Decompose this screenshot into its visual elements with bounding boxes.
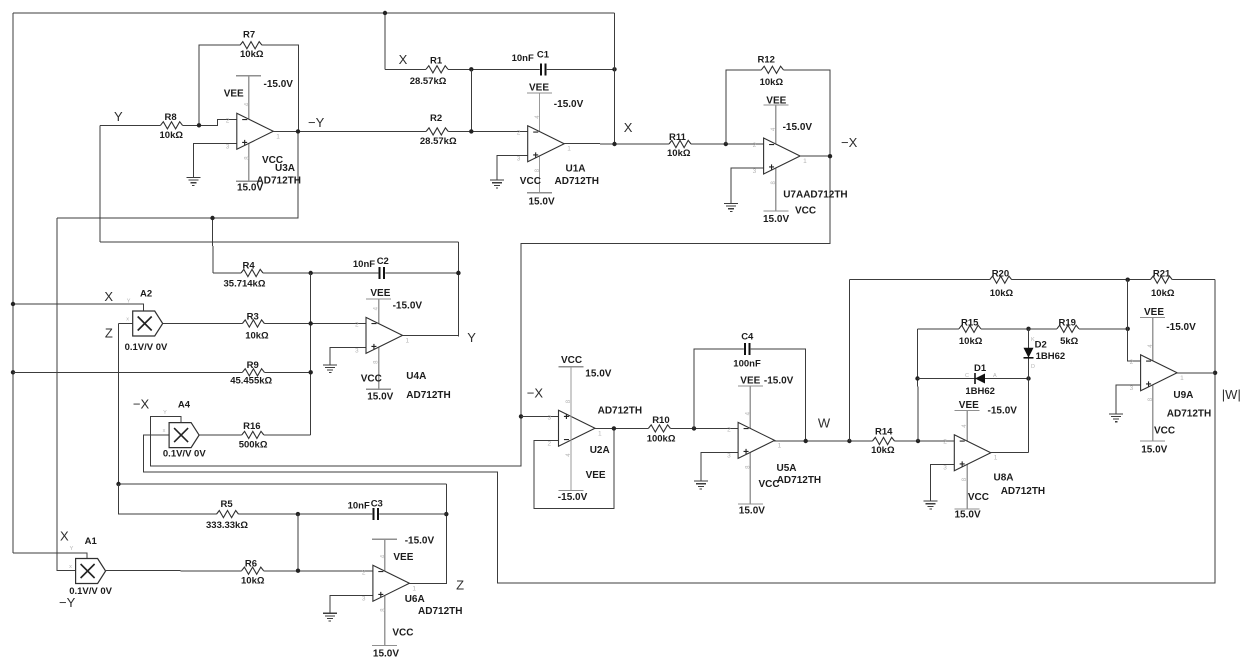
- wire Y output: [403, 334, 459, 336]
- junction -Y output: [296, 129, 300, 133]
- wire X output row: [564, 143, 763, 145]
- svg-text:+: +: [533, 150, 539, 161]
- svg-text:2: 2: [943, 439, 947, 446]
- svg-text:10kΩ: 10kΩ: [240, 49, 264, 60]
- resistor R21: [1150, 275, 1172, 284]
- svg-text:-15.0V: -15.0V: [1166, 322, 1196, 333]
- svg-text:Z: Z: [456, 578, 464, 593]
- wire summing riser U6A: [297, 514, 299, 571]
- ground U9A: [1109, 414, 1123, 422]
- svg-text:10nF: 10nF: [512, 53, 534, 64]
- power VCC U1A: [527, 192, 552, 194]
- svg-text:D1: D1: [974, 363, 987, 374]
- svg-text:AD712TH: AD712TH: [418, 606, 462, 617]
- svg-text:2: 2: [1130, 359, 1134, 366]
- diode D1: [918, 378, 1029, 380]
- svg-text:1: 1: [778, 442, 782, 449]
- svg-text:−X: −X: [841, 135, 858, 150]
- svg-text:VEE: VEE: [370, 288, 390, 299]
- svg-text:AD712TH: AD712TH: [777, 475, 821, 486]
- svg-text:1: 1: [412, 585, 416, 592]
- svg-text:2: 2: [517, 130, 521, 137]
- svg-text:+: +: [564, 412, 570, 423]
- svg-text:C: C: [965, 373, 969, 379]
- svg-text:100nF: 100nF: [733, 359, 761, 370]
- svg-text:-15.0V: -15.0V: [554, 99, 584, 110]
- svg-text:10kΩ: 10kΩ: [667, 148, 691, 159]
- ground U4A: [323, 365, 337, 373]
- svg-text:28.57kΩ: 28.57kΩ: [420, 136, 457, 147]
- svg-text:U2A: U2A: [590, 445, 610, 456]
- ground U6A: [323, 613, 337, 621]
- svg-text:U4A: U4A: [406, 371, 426, 382]
- svg-text:U3A: U3A: [275, 163, 295, 174]
- svg-text:−: −: [371, 319, 377, 330]
- svg-text:5kΩ: 5kΩ: [1060, 336, 1079, 347]
- ground U5A: [694, 481, 708, 489]
- svg-text:0.1V/V 0V: 0.1V/V 0V: [163, 449, 206, 460]
- svg-text:|W|: |W|: [1222, 387, 1241, 402]
- op-amp U8A: [943, 435, 998, 472]
- svg-text:VCC: VCC: [520, 176, 541, 187]
- wire U4A + input: [330, 347, 366, 364]
- junction X/R9: [11, 370, 15, 374]
- wire X to A2 y input: [13, 304, 144, 311]
- wire |W| net from U9A output: [144, 280, 1216, 583]
- svg-text:Z: Z: [105, 326, 113, 341]
- svg-text:U7AAD712TH: U7AAD712TH: [783, 190, 847, 201]
- svg-text:10nF: 10nF: [348, 500, 370, 511]
- svg-text:−: −: [533, 128, 539, 139]
- resistor R11: [669, 139, 691, 148]
- svg-text:100kΩ: 100kΩ: [647, 434, 676, 445]
- svg-text:U6A: U6A: [405, 594, 425, 605]
- svg-text:U9A: U9A: [1173, 390, 1193, 401]
- wire U9A output: [1177, 372, 1215, 374]
- svg-text:VCC: VCC: [392, 628, 413, 639]
- svg-text:1BH62: 1BH62: [965, 386, 995, 397]
- svg-text:VCC: VCC: [361, 374, 382, 385]
- svg-text:+: +: [242, 138, 248, 149]
- wire U9A + input: [1116, 385, 1141, 414]
- ground U1A: [490, 180, 504, 188]
- resistor R9: [13, 371, 311, 373]
- svg-text:1: 1: [1180, 375, 1184, 382]
- wire W riser to R20: [848, 280, 850, 441]
- junction R9: [309, 370, 313, 374]
- svg-text:K: K: [1031, 337, 1035, 343]
- junction summing U4A: [309, 271, 313, 275]
- svg-text:1: 1: [276, 133, 280, 140]
- svg-text:D2: D2: [1035, 339, 1047, 350]
- svg-text:Y: Y: [163, 410, 167, 416]
- svg-text:2: 2: [362, 569, 366, 576]
- power VEE U1A: [539, 93, 541, 193]
- svg-text:D: D: [1031, 364, 1035, 370]
- junction R15/R19/D2: [1026, 327, 1030, 331]
- junction R14/U8A: [916, 439, 920, 443]
- svg-text:VEE: VEE: [1144, 307, 1164, 318]
- svg-text:W: W: [818, 416, 831, 431]
- svg-text:VCC: VCC: [795, 206, 816, 217]
- svg-text:1: 1: [803, 158, 807, 165]
- svg-text:28.57kΩ: 28.57kΩ: [410, 76, 447, 87]
- svg-text:15.0V: 15.0V: [739, 506, 765, 517]
- svg-text:2: 2: [727, 426, 731, 433]
- junction Y/C2: [456, 271, 460, 275]
- svg-text:-15.0V: -15.0V: [264, 79, 294, 90]
- wire -Y down to A1 x input: [57, 218, 76, 571]
- svg-text:15.0V: 15.0V: [1141, 444, 1167, 455]
- svg-text:R5: R5: [221, 499, 234, 510]
- wire U3A + input: [193, 143, 237, 177]
- op-amp U1A: [517, 126, 572, 163]
- op-amp U3A: [226, 113, 280, 150]
- svg-text:-15.0V: -15.0V: [988, 406, 1018, 417]
- svg-text:10kΩ: 10kΩ: [871, 445, 895, 456]
- resistor R1: [385, 68, 615, 70]
- svg-text:10kΩ: 10kΩ: [1151, 288, 1175, 299]
- capacitor C2: [311, 272, 459, 274]
- power VCC U8A: [955, 508, 980, 510]
- svg-text:−: −: [959, 437, 965, 448]
- resistor R7: [199, 45, 299, 131]
- svg-text:3: 3: [226, 143, 230, 150]
- svg-text:AD712TH: AD712TH: [598, 405, 642, 416]
- svg-text:15.0V: 15.0V: [373, 648, 399, 659]
- wire U8A feedback bus left: [917, 329, 920, 441]
- wire Z net rail: [118, 483, 447, 485]
- svg-text:AD712TH: AD712TH: [406, 390, 450, 401]
- svg-text:-15.0V: -15.0V: [393, 300, 423, 311]
- resistor R2: [426, 127, 448, 136]
- multiplier A1: [69, 546, 106, 584]
- svg-text:−X: −X: [133, 397, 150, 412]
- ground U7A: [724, 204, 738, 212]
- svg-text:−: −: [769, 140, 775, 151]
- svg-text:R15: R15: [961, 317, 979, 328]
- resistor R10: [648, 424, 670, 433]
- svg-text:2: 2: [753, 142, 757, 149]
- junction C1 right: [612, 67, 616, 71]
- wire U2A feedback loop: [534, 428, 614, 508]
- svg-text:X: X: [60, 529, 69, 544]
- junction D1 right: [1026, 376, 1030, 380]
- svg-text:Y: Y: [467, 330, 476, 345]
- svg-text:U5A: U5A: [777, 463, 797, 474]
- svg-text:10kΩ: 10kΩ: [245, 331, 269, 342]
- svg-text:VEE: VEE: [766, 96, 786, 107]
- svg-text:3: 3: [362, 595, 366, 602]
- wire -Y to R4: [212, 218, 215, 273]
- ground U3A: [186, 178, 200, 186]
- svg-text:Y: Y: [114, 109, 123, 124]
- svg-text:C3: C3: [371, 499, 383, 510]
- svg-text:x: x: [163, 428, 166, 434]
- resistor R8: [100, 124, 199, 126]
- power VCC U7A: [763, 210, 788, 212]
- svg-text:+: +: [743, 447, 749, 458]
- svg-text:−Y: −Y: [59, 595, 76, 610]
- op-amp U5A: [727, 422, 782, 459]
- svg-text:R20: R20: [992, 268, 1009, 279]
- svg-text:Y: Y: [127, 299, 131, 305]
- svg-text:−: −: [564, 435, 570, 446]
- resistor R19: [1029, 328, 1128, 330]
- svg-text:+: +: [769, 163, 775, 174]
- svg-text:+: +: [1146, 379, 1152, 390]
- wire U8A output: [991, 452, 1029, 454]
- svg-text:R16: R16: [243, 421, 260, 432]
- multiplier A2: [126, 299, 163, 337]
- junction R7/R8: [197, 123, 201, 127]
- svg-text:Y: Y: [70, 546, 74, 552]
- power VCC U4A: [366, 388, 391, 390]
- resistor R6: [106, 570, 373, 572]
- junction U2A feedback: [612, 426, 616, 430]
- wire -Y bus from U3A: [57, 131, 298, 218]
- svg-text:3: 3: [548, 414, 552, 421]
- svg-text:10kΩ: 10kΩ: [760, 77, 784, 88]
- svg-text:+: +: [371, 342, 377, 353]
- svg-text:AD712TH: AD712TH: [257, 175, 301, 186]
- junction R11/R12: [724, 142, 728, 146]
- resistor R14: [873, 436, 895, 445]
- junction U7A output: [828, 154, 832, 158]
- resistor R5: [118, 484, 120, 514]
- resistor R12: [726, 70, 830, 244]
- capacitor C1: [540, 63, 547, 76]
- power VEE U6A: [384, 539, 386, 645]
- wire U5A + input: [701, 452, 738, 481]
- svg-text:+: +: [378, 590, 384, 601]
- wire U8A + input: [931, 464, 955, 501]
- wire Z net from A2 input down: [118, 324, 120, 515]
- svg-text:10kΩ: 10kΩ: [160, 130, 184, 141]
- ground U8A: [924, 501, 938, 509]
- power VCC U5A: [738, 503, 763, 505]
- svg-text:+: +: [959, 459, 965, 470]
- svg-text:15.0V: 15.0V: [529, 197, 555, 208]
- power VEE U2A: [559, 489, 584, 491]
- power VEE U8A: [966, 411, 968, 510]
- junction C4/W: [804, 439, 808, 443]
- svg-text:C2: C2: [377, 256, 389, 267]
- junction R1/C1: [469, 67, 473, 71]
- svg-text:AD712TH: AD712TH: [1167, 409, 1211, 420]
- capacitor C3: [372, 508, 379, 521]
- junction C2 right: [456, 271, 460, 275]
- svg-text:15.0V: 15.0V: [367, 391, 393, 402]
- svg-text:10kΩ: 10kΩ: [959, 336, 983, 347]
- junction X output: [612, 142, 616, 146]
- svg-text:VEE: VEE: [740, 376, 760, 387]
- svg-text:R21: R21: [1153, 268, 1171, 279]
- svg-text:0.1V/V 0V: 0.1V/V 0V: [69, 586, 112, 597]
- svg-text:VEE: VEE: [393, 552, 413, 563]
- power VEE U3A: [248, 76, 250, 182]
- wire X feedback vertical: [614, 13, 616, 144]
- svg-text:VEE: VEE: [529, 83, 549, 94]
- junction X top: [383, 11, 387, 15]
- power VCC U3A: [236, 180, 261, 182]
- wire Z output: [409, 582, 446, 584]
- wire X net top rail: [13, 12, 615, 14]
- resistor R4: [213, 272, 311, 274]
- svg-text:X: X: [104, 289, 113, 304]
- power VEE U5A: [749, 386, 751, 504]
- svg-text:R8: R8: [165, 112, 177, 123]
- svg-text:3: 3: [727, 452, 731, 459]
- junction D1 left: [915, 376, 919, 380]
- svg-text:2: 2: [226, 117, 230, 124]
- op-amp U9A: [1130, 355, 1185, 392]
- svg-text:AD712TH: AD712TH: [1001, 486, 1045, 497]
- svg-text:AD712TH: AD712TH: [555, 176, 599, 187]
- junction R6/U6A: [296, 569, 300, 573]
- svg-text:3: 3: [517, 156, 521, 163]
- wire Z to A2 x input: [119, 323, 133, 325]
- svg-text:3: 3: [1130, 385, 1134, 392]
- svg-text:VCC: VCC: [968, 492, 989, 503]
- junction R5/C3: [296, 512, 300, 516]
- wire W output row: [775, 439, 955, 442]
- junction R2/U1A: [469, 129, 473, 133]
- junction R19/R20: [1126, 327, 1130, 331]
- svg-text:500kΩ: 500kΩ: [239, 439, 268, 450]
- svg-text:1BH62: 1BH62: [1036, 351, 1066, 362]
- svg-text:VCC: VCC: [1154, 425, 1175, 436]
- svg-text:10nF: 10nF: [353, 259, 375, 270]
- svg-text:C4: C4: [741, 331, 754, 342]
- svg-text:R11: R11: [669, 132, 687, 143]
- svg-text:R4: R4: [243, 260, 256, 271]
- wire -X rail from U7A to U2A: [151, 156, 831, 466]
- svg-text:3: 3: [753, 168, 757, 175]
- svg-text:−Y: −Y: [308, 115, 325, 130]
- junction -X/U2A+: [519, 414, 523, 418]
- wire X feedback riser to R1: [384, 13, 386, 69]
- svg-text:10kΩ: 10kΩ: [241, 576, 265, 587]
- junction R10/C4: [692, 426, 696, 430]
- svg-text:-15.0V: -15.0V: [405, 535, 435, 546]
- resistor R16: [199, 434, 311, 436]
- svg-text:35.714kΩ: 35.714kΩ: [224, 279, 266, 290]
- wire U9A summing: [1128, 280, 1141, 361]
- svg-text:2: 2: [355, 321, 359, 328]
- svg-text:VCC: VCC: [561, 355, 582, 366]
- svg-text:−: −: [743, 424, 749, 435]
- svg-text:1: 1: [598, 430, 602, 437]
- svg-text:x: x: [69, 564, 72, 570]
- svg-text:X: X: [624, 120, 633, 135]
- power VCC U2A: [570, 367, 572, 491]
- svg-text:R14: R14: [875, 426, 893, 437]
- wire summing node riser U1A: [470, 69, 472, 131]
- svg-text:R2: R2: [430, 113, 442, 124]
- svg-text:15.0V: 15.0V: [585, 368, 611, 379]
- resistor R15: [918, 328, 1029, 330]
- resistor R20: [849, 279, 1215, 281]
- svg-text:X: X: [399, 52, 408, 67]
- svg-text:−: −: [378, 567, 384, 578]
- wire U6A + input: [330, 595, 373, 613]
- svg-text:0.1V/V 0V: 0.1V/V 0V: [125, 342, 168, 353]
- svg-text:A: A: [993, 373, 997, 379]
- op-amp U6A: [362, 565, 417, 602]
- svg-text:1: 1: [994, 455, 998, 462]
- svg-text:1: 1: [567, 146, 571, 153]
- junction Z/R5: [116, 482, 120, 486]
- svg-text:15.0V: 15.0V: [955, 509, 981, 520]
- svg-text:3: 3: [943, 465, 947, 472]
- svg-text:1: 1: [406, 337, 410, 344]
- svg-text:C1: C1: [537, 49, 550, 60]
- svg-text:VEE: VEE: [224, 89, 244, 100]
- wire U7A + input: [731, 168, 763, 204]
- wire summing bus U4A: [310, 273, 312, 435]
- op-amp U2A (follower): [548, 410, 603, 447]
- power VCC U6A: [372, 645, 397, 647]
- svg-text:U8A: U8A: [994, 473, 1014, 484]
- wire Y net riser to R8: [99, 125, 101, 242]
- svg-text:A4: A4: [178, 399, 191, 410]
- svg-text:-15.0V: -15.0V: [783, 122, 813, 133]
- wire U2A output row: [595, 427, 738, 429]
- power VCC U9A: [1140, 440, 1165, 442]
- svg-text:R7: R7: [243, 30, 255, 41]
- svg-text:R12: R12: [758, 55, 775, 66]
- svg-text:3: 3: [355, 347, 359, 354]
- junction R20/R21: [1126, 278, 1130, 282]
- svg-text:2: 2: [548, 440, 552, 447]
- power VEE U4A: [378, 299, 380, 389]
- svg-text:R1: R1: [430, 56, 443, 67]
- svg-text:−X: −X: [527, 386, 544, 401]
- wire D2 branch: [1028, 329, 1030, 453]
- resistor R3: [162, 323, 366, 325]
- junction W/R20 riser: [847, 439, 851, 443]
- svg-text:15.0V: 15.0V: [763, 214, 789, 225]
- svg-text:R10: R10: [652, 415, 669, 426]
- svg-text:−: −: [242, 115, 248, 126]
- junction Z/C3: [444, 512, 448, 516]
- power VEE U9A: [1152, 317, 1154, 441]
- svg-text:VEE: VEE: [959, 400, 979, 411]
- svg-text:R6: R6: [245, 559, 257, 570]
- junction R3: [309, 321, 313, 325]
- svg-text:A1: A1: [85, 536, 98, 547]
- diode D2: [1024, 348, 1034, 358]
- svg-text:-15.0V: -15.0V: [558, 492, 588, 503]
- wire U1A + input: [497, 156, 528, 180]
- capacitor C4: [694, 349, 806, 441]
- wire -X to U2A + input: [521, 415, 559, 417]
- svg-text:R19: R19: [1059, 317, 1076, 328]
- svg-text:VEE: VEE: [586, 470, 606, 481]
- wire Z net to U6A output: [409, 484, 446, 583]
- svg-text:R3: R3: [247, 311, 259, 322]
- junction X/A2: [11, 302, 15, 306]
- svg-text:-15.0V: -15.0V: [764, 376, 794, 387]
- wire X net left bus: [12, 13, 14, 553]
- svg-text:A2: A2: [140, 288, 152, 299]
- multiplier A4: [163, 410, 200, 448]
- power VEE U7A: [775, 105, 777, 211]
- wire X to A1 y input: [13, 553, 87, 559]
- svg-text:x: x: [126, 317, 129, 323]
- wire Y net down to U4A output: [457, 242, 459, 336]
